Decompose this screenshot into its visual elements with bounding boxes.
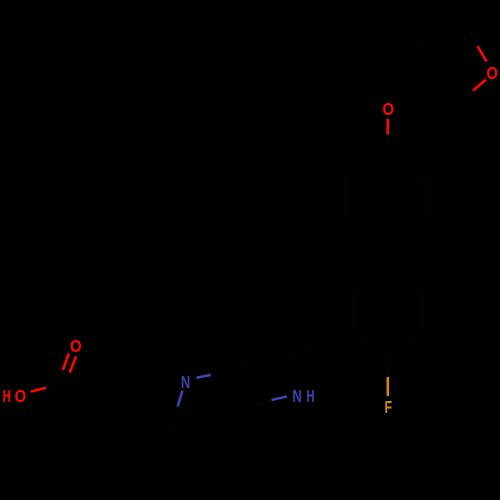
atom N2 amine NH <box>292 386 314 406</box>
atom N1 pyrrolidine nitrogen <box>181 372 190 392</box>
atom O5 carbonyl oxygen <box>70 336 82 356</box>
bond O7-C5 oxolane lower (red half) <box>460 80 486 104</box>
svg-text:H: H <box>306 386 314 406</box>
benzene ring1 <box>346 152 428 247</box>
bond NH-C left (blue half) <box>255 397 287 405</box>
pyrrolidine ring skeleton <box>173 372 255 441</box>
bridge ring2 to pyrrolidine <box>225 335 347 372</box>
bond N1-C up-right (blue half) <box>196 372 225 378</box>
bond ring1-ring2 biaryl link <box>387 247 388 264</box>
atom O6 ether oxygen <box>383 99 395 119</box>
atom O4 hydroxyl HO <box>3 386 27 406</box>
svg-text:O: O <box>70 336 82 356</box>
bond O6-ring1 ether (red half down) <box>386 119 389 152</box>
benzene ring2 <box>347 264 429 358</box>
svg-text:F: F <box>385 397 393 417</box>
bond HO-C1 (red half) <box>31 384 60 392</box>
svg-text:O: O <box>15 386 27 406</box>
bond C-F (orange half) <box>387 358 389 396</box>
oxolane ring skeleton <box>416 31 469 103</box>
bond N1-C down-left (blue half) <box>173 391 183 424</box>
svg-text:O: O <box>486 63 498 83</box>
svg-text:N: N <box>292 386 301 406</box>
svg-text:H: H <box>3 386 11 406</box>
bond C1=O5 double bond (red halves) <box>58 353 76 384</box>
svg-text:N: N <box>181 372 190 392</box>
svg-text:O: O <box>383 99 395 119</box>
bond O7-C2 oxolane upper (red half) <box>469 31 487 62</box>
acid chain skeleton <box>60 384 173 441</box>
atom F1 fluorine <box>385 397 393 417</box>
atom O7 oxolane oxygen <box>486 63 498 83</box>
